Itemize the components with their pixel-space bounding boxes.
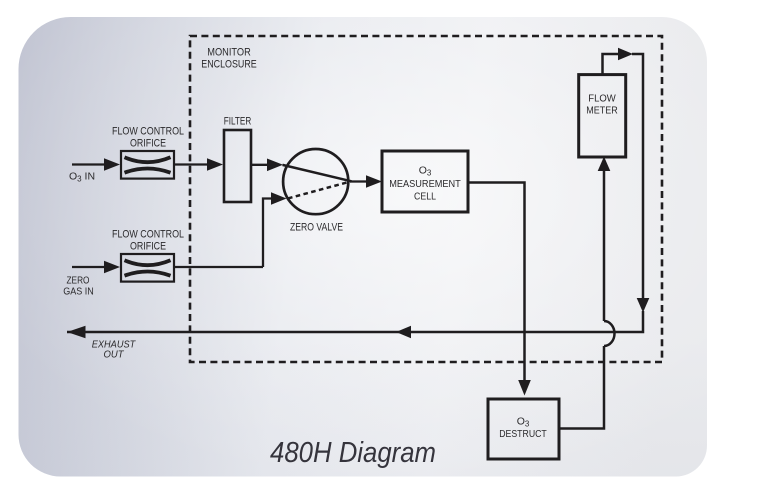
label EXHAUST OUT	[92, 339, 137, 361]
valve solid path	[283, 165, 352, 181]
measurement cell box	[382, 151, 468, 212]
svg-text:METER: METER	[586, 105, 618, 117]
wire top loop to right drop	[632, 54, 643, 299]
flow meter box	[579, 75, 626, 157]
wire right drop to exhaust corner	[67, 311, 643, 332]
svg-text:FILTER: FILTER	[224, 116, 252, 128]
arrowhead into orifice 1	[104, 158, 120, 171]
valve dashed path	[288, 182, 351, 199]
svg-text:FLOW CONTROL: FLOW CONTROL	[112, 229, 184, 241]
label FLOW CONTROL ORIFICE 2	[112, 229, 184, 253]
arrowhead into destruct	[518, 380, 531, 396]
arrowhead into flow meter bottom	[598, 157, 611, 172]
label MONITOR ENCLOSURE	[201, 47, 257, 71]
svg-text:ENCLOSURE: ENCLOSURE	[201, 59, 257, 71]
svg-text:O3 IN: O3 IN	[69, 171, 95, 184]
wire zero gas in	[72, 266, 105, 268]
arrowhead into orifice 2	[104, 261, 120, 274]
arrowhead on top loop	[618, 48, 633, 61]
svg-text:ORIFICE: ORIFICE	[130, 138, 166, 150]
wire orifice 2 to valve riser	[174, 266, 263, 268]
label ZERO GAS IN	[63, 275, 94, 298]
arrowhead down on right drop	[637, 298, 650, 313]
destruct box	[488, 399, 559, 459]
label FLOW METER	[586, 93, 618, 117]
svg-text:FLOW CONTROL: FLOW CONTROL	[112, 126, 184, 138]
monitor enclosure dashed border	[190, 36, 662, 362]
wire valve to measurement cell	[351, 180, 367, 182]
wire flow meter top loop	[603, 54, 620, 75]
filter box	[224, 130, 251, 202]
svg-text:DESTRUCT: DESTRUCT	[499, 428, 547, 440]
arrowhead into valve top port	[267, 159, 283, 172]
crossover hop over exhaust line	[604, 321, 615, 346]
wire zero gas up into valve	[263, 199, 272, 268]
arrowhead exhaust out	[67, 326, 86, 338]
svg-text:CELL: CELL	[414, 191, 436, 203]
svg-text:OUT: OUT	[104, 349, 125, 361]
wire orifice 1 to filter	[174, 163, 209, 165]
arrowhead mid exhaust	[396, 326, 411, 339]
arrowhead into measurement cell	[366, 175, 382, 188]
label FLOW CONTROL ORIFICE 1	[112, 126, 184, 150]
wire filter to zero valve	[251, 164, 268, 166]
label O3 MEASUREMENT CELL	[389, 165, 461, 203]
svg-text:ZERO VALVE: ZERO VALVE	[290, 222, 343, 234]
arrowhead into valve lower port	[271, 192, 287, 205]
svg-text:MONITOR: MONITOR	[207, 47, 251, 59]
orifice 1 box	[121, 151, 174, 179]
svg-text:MEASUREMENT: MEASUREMENT	[389, 178, 461, 190]
zero valve circle	[283, 149, 348, 214]
arrowhead into filter	[207, 158, 223, 171]
svg-text:FLOW: FLOW	[588, 93, 616, 105]
label O3 DESTRUCT	[499, 416, 547, 441]
wire O3 in	[72, 163, 105, 165]
svg-text:ORIFICE: ORIFICE	[130, 241, 166, 253]
orifice 2 box	[121, 254, 174, 282]
svg-text:480H Diagram: 480H Diagram	[270, 437, 436, 469]
svg-text:GAS IN: GAS IN	[63, 286, 94, 298]
wire measurement cell to destruct	[468, 183, 525, 382]
wire destruct to flow meter (lower part)	[559, 346, 604, 429]
wire hop to flow meter	[603, 170, 606, 321]
